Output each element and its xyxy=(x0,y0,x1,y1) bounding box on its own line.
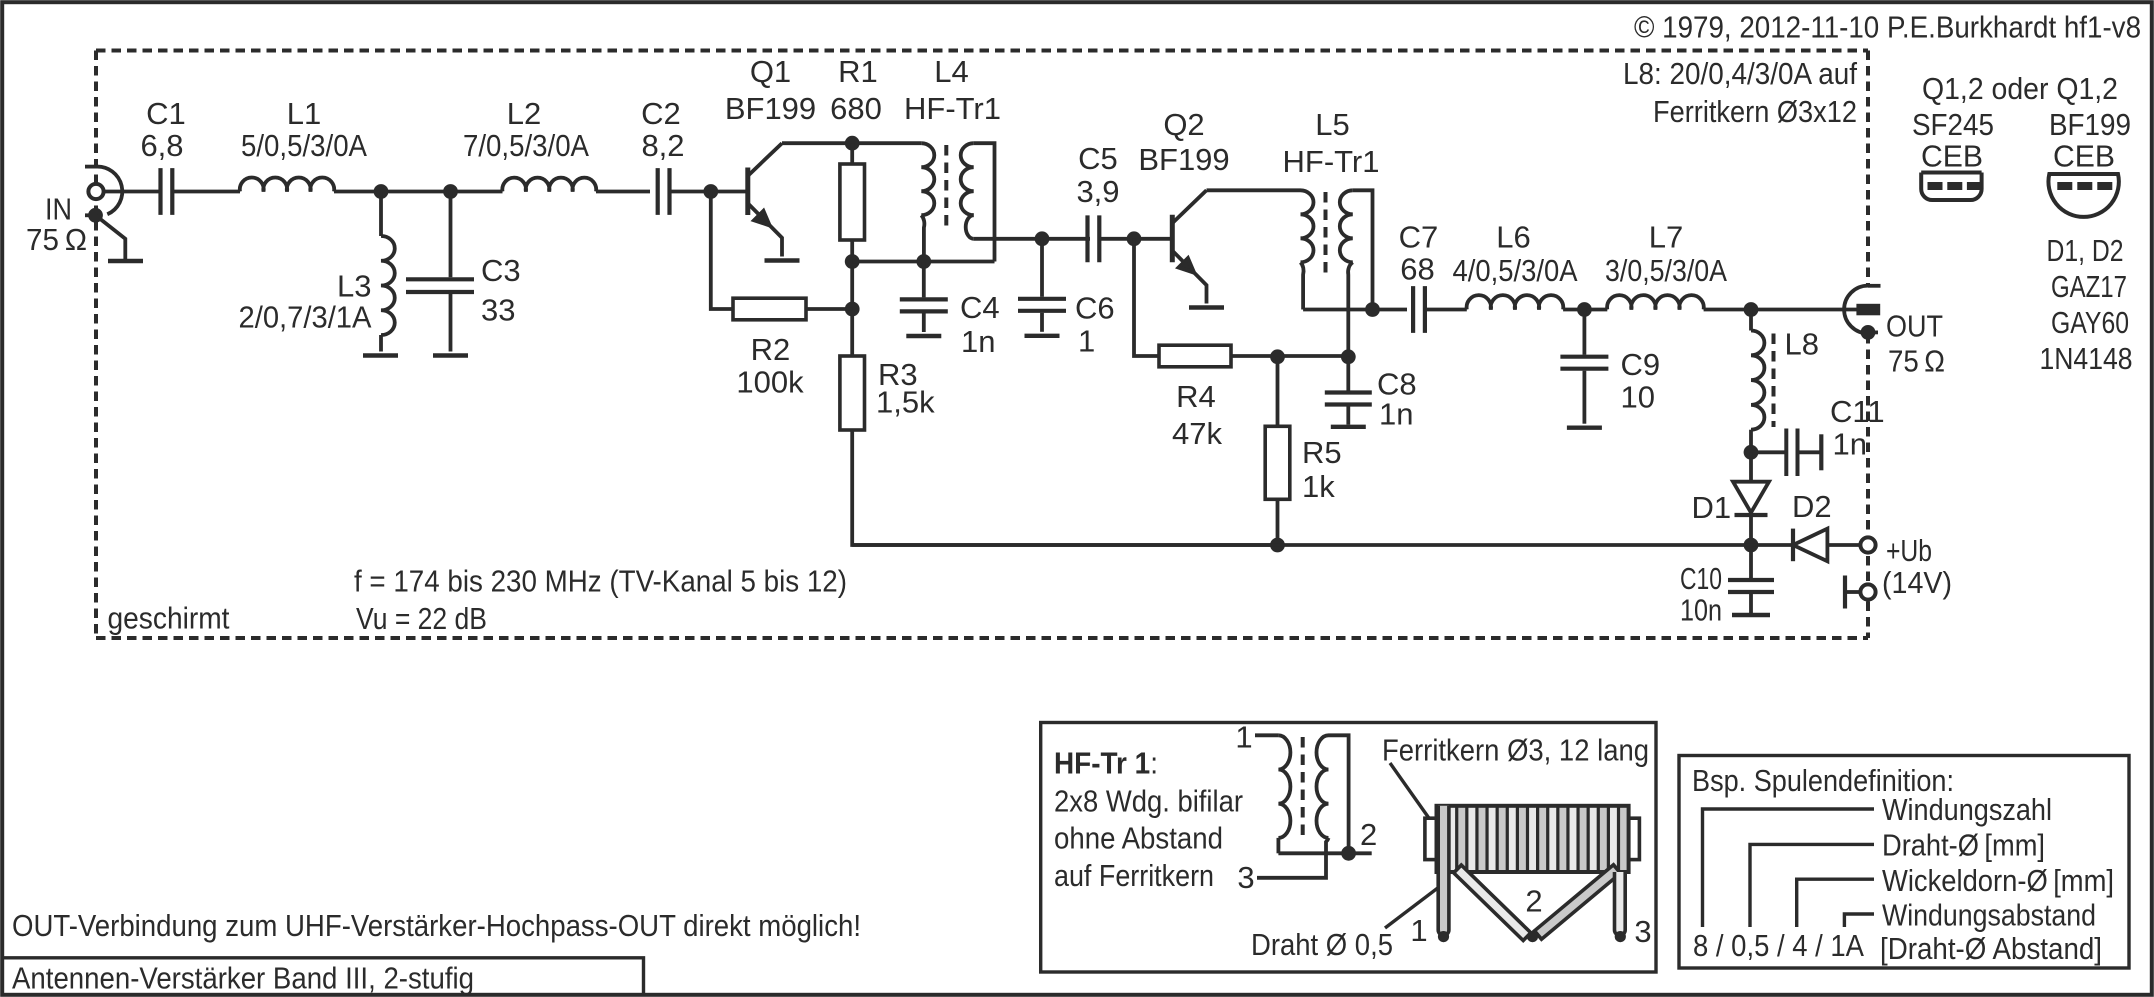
chassis bar (C11 to shield) xyxy=(1819,434,1823,470)
ground (C6) xyxy=(1025,334,1060,338)
resistor R3 xyxy=(840,356,865,430)
node: OUT shield dot xyxy=(1861,325,1876,340)
OUT connector (coax socket on shield wall) xyxy=(1844,286,1868,334)
svg-text:+Ub: +Ub xyxy=(1886,533,1932,568)
svg-text:75 Ω: 75 Ω xyxy=(26,222,87,257)
ground (C9) xyxy=(1567,426,1602,430)
inductor L6 xyxy=(1467,295,1564,309)
svg-text:1n: 1n xyxy=(1379,397,1413,432)
svg-text:1: 1 xyxy=(1235,720,1252,755)
capacitor C2 xyxy=(658,168,670,215)
svg-text:680: 680 xyxy=(830,91,882,126)
svg-text:Ferritkern Ø3, 12 lang: Ferritkern Ø3, 12 lang xyxy=(1382,733,1649,768)
svg-text:BF199: BF199 xyxy=(2049,107,2131,142)
svg-text:1: 1 xyxy=(1078,324,1095,359)
capacitor C10 xyxy=(1749,545,1753,578)
HF-Tr1 symbol: primary winding xyxy=(1278,735,1290,838)
transistor Q1 xyxy=(745,168,750,216)
svg-text:OUT-Verbindung zum UHF-Verstär: OUT-Verbindung zum UHF-Verstärker-Hochpa… xyxy=(12,908,861,943)
svg-text:OUT: OUT xyxy=(1886,309,1943,344)
svg-text:[Draht-Ø Abstand]: [Draht-Ø Abstand] xyxy=(1880,931,2102,966)
svg-text:2x8 Wdg. bifilar: 2x8 Wdg. bifilar xyxy=(1054,784,1243,819)
bracket: Windungszahl xyxy=(1703,809,1875,927)
svg-text:C5: C5 xyxy=(1078,141,1118,176)
svg-text:10n: 10n xyxy=(1680,593,1722,628)
svg-text:D1: D1 xyxy=(1692,490,1732,525)
wire: L4 tap row xyxy=(852,260,994,264)
wire: R2 to R3 node xyxy=(806,307,852,311)
inductor L3 (shunt) xyxy=(379,192,383,237)
wire: Q2 base to R4 xyxy=(1134,239,1159,356)
wire: L4 secondary bottom to Q2 base row xyxy=(974,237,1090,241)
svg-text:© 1979, 2012-11-10 P.E.Burkhar: © 1979, 2012-11-10 P.E.Burkhardt hf1-v8 xyxy=(1634,10,2141,45)
ground (C3) xyxy=(433,353,468,357)
svg-text:Q2: Q2 xyxy=(1163,107,1204,142)
svg-text:(14V): (14V) xyxy=(1882,565,1952,600)
svg-text:6,8: 6,8 xyxy=(140,128,183,163)
svg-text:3: 3 xyxy=(1237,860,1254,895)
wire: L5 tap row to C7 xyxy=(1303,308,1407,312)
coil drawing: pin 1 lead xyxy=(1438,806,1449,936)
node: L3 junction xyxy=(374,184,389,199)
svg-text:HF-Tr1: HF-Tr1 xyxy=(1283,144,1380,179)
node: R1 top junction xyxy=(845,136,860,151)
wire: C2 to Q1 base xyxy=(670,190,746,194)
resistor R4 xyxy=(1159,345,1231,367)
svg-text:C9: C9 xyxy=(1621,347,1661,382)
svg-text:C10: C10 xyxy=(1680,561,1722,596)
Spulendefinition box xyxy=(1679,756,2129,969)
svg-text:Antennen-Verstärker Band III,: Antennen-Verstärker Band III, 2-stufig xyxy=(12,961,474,996)
capacitor C4 xyxy=(922,262,926,298)
shield box (geschirmt), dashed border xyxy=(96,49,1868,53)
capacitor C8 xyxy=(1346,357,1350,391)
title box xyxy=(4,958,644,995)
node: D1/C10 junction on supply rail xyxy=(1744,538,1759,553)
svg-text:1: 1 xyxy=(1410,913,1427,948)
svg-text:R2: R2 xyxy=(751,332,791,367)
wire: C5 to Q2 base xyxy=(1100,237,1170,241)
svg-text:47k: 47k xyxy=(1172,416,1222,451)
svg-text:Ferritkern Ø3x12: Ferritkern Ø3x12 xyxy=(1653,94,1857,129)
HF-Tr1 symbol: secondary winding xyxy=(1317,735,1329,838)
ground (C8) xyxy=(1331,425,1366,429)
HF-Tr1 symbol: secondary top to pin2 riser xyxy=(1329,735,1349,853)
svg-text:HF-Tr 1:: HF-Tr 1: xyxy=(1054,746,1158,781)
svg-text:C3: C3 xyxy=(481,253,521,288)
svg-text:geschirmt: geschirmt xyxy=(108,601,230,636)
node: C8 junction xyxy=(1341,349,1356,364)
svg-text:33: 33 xyxy=(481,293,515,328)
svg-text:D2: D2 xyxy=(1792,489,1832,524)
resistor R2 xyxy=(733,298,806,320)
wire: Q2 collector to L5 xyxy=(1207,188,1301,192)
svg-text:Windungszahl: Windungszahl xyxy=(1882,792,2052,827)
capacitor C3 (shunt) xyxy=(449,192,453,278)
svg-text:HF-Tr1: HF-Tr1 xyxy=(904,91,1001,126)
wire: C7 to L6 xyxy=(1425,308,1466,312)
svg-text:C6: C6 xyxy=(1075,291,1115,326)
wire: IN to C1 xyxy=(104,190,161,194)
capacitor C5 xyxy=(1088,215,1100,262)
transformer L4 (HF-Tr1) primary winding xyxy=(921,143,934,215)
svg-text:Draht Ø 0,5: Draht Ø 0,5 xyxy=(1251,927,1393,962)
wire: C1 to L1 xyxy=(173,190,240,194)
ground (IN shield) xyxy=(108,259,143,263)
svg-text:D1, D2: D1, D2 xyxy=(2047,233,2124,268)
svg-text:2/0,7/3/1A: 2/0,7/3/1A xyxy=(239,300,372,335)
svg-text:GAY60: GAY60 xyxy=(2051,305,2129,340)
svg-text:L1: L1 xyxy=(287,96,321,131)
svg-text:C1: C1 xyxy=(146,96,186,131)
node: Q1 base junction xyxy=(703,184,718,199)
chassis bar (supply return to shield) xyxy=(1843,576,1847,609)
inductor L7 xyxy=(1607,295,1704,309)
svg-text:L4: L4 xyxy=(934,54,968,89)
transformer L4 secondary winding xyxy=(961,143,974,215)
svg-text:f = 174 bis 230 MHz (TV-Kanal: f = 174 bis 230 MHz (TV-Kanal 5 bis 12) xyxy=(354,564,847,599)
capacitor C1 xyxy=(161,168,173,215)
resistor R1 xyxy=(850,143,854,164)
Draht callout line xyxy=(1385,884,1443,928)
coil drawing: left end cap xyxy=(1425,818,1437,859)
svg-text:C4: C4 xyxy=(960,290,1000,325)
svg-text:1k: 1k xyxy=(1302,469,1335,504)
node: C6 junction xyxy=(1035,231,1050,246)
node: L4 primary bottom junction (C4) xyxy=(916,254,931,269)
wire: L5 secondary top to output tap xyxy=(1353,190,1373,309)
svg-text:100k: 100k xyxy=(736,365,804,400)
L4 core (dashed) xyxy=(944,145,948,228)
IN connector (coax socket on shield wall) xyxy=(85,165,97,169)
svg-text:Draht-Ø [mm]: Draht-Ø [mm] xyxy=(1882,828,2045,863)
coil drawing: right end cap xyxy=(1629,818,1640,859)
svg-text:4/0,5/3/0A: 4/0,5/3/0A xyxy=(1453,253,1578,288)
coil drawing: pin 3 lead xyxy=(1615,872,1626,935)
HF-Tr1 symbol: primary bottom to pin 2 xyxy=(1278,851,1371,855)
bracket: Wickeldorn-diameter xyxy=(1797,879,1874,927)
capacitor C7 xyxy=(1413,286,1425,333)
svg-text:C7: C7 xyxy=(1399,220,1439,255)
svg-text:L8: L8 xyxy=(1785,327,1819,362)
svg-text:R5: R5 xyxy=(1302,435,1342,470)
wire: Q1 base feedback to R2 xyxy=(711,192,733,310)
node: L8 junction xyxy=(1744,302,1759,317)
svg-text:L6: L6 xyxy=(1496,220,1530,255)
coil drawing: body with windings (striped) xyxy=(1437,806,1629,872)
svg-text:BF199: BF199 xyxy=(725,91,816,126)
bracket: Windungsabstand xyxy=(1844,914,1874,927)
ground (C4) xyxy=(906,334,941,338)
node: C9 junction xyxy=(1577,302,1592,317)
node: R5 top junction xyxy=(1270,349,1285,364)
svg-text:L7: L7 xyxy=(1649,220,1683,255)
capacitor C11 xyxy=(1751,450,1785,454)
svg-text:1N4148: 1N4148 xyxy=(2040,341,2133,376)
svg-text:1,5k: 1,5k xyxy=(876,385,935,420)
ground (C10) xyxy=(1732,613,1770,617)
svg-text:3/0,5/3/0A: 3/0,5/3/0A xyxy=(1605,253,1727,288)
svg-text:8,2: 8,2 xyxy=(641,128,684,163)
svg-text:Q1,2 oder Q1,2: Q1,2 oder Q1,2 xyxy=(1922,71,2118,106)
node: L5 tap junction xyxy=(1365,302,1380,317)
svg-text:3: 3 xyxy=(1634,914,1651,949)
capacitor C9 xyxy=(1583,310,1587,355)
BF199 package outline xyxy=(2048,174,2118,217)
svg-text:1n: 1n xyxy=(1833,427,1867,462)
svg-text:auf Ferritkern: auf Ferritkern xyxy=(1054,858,1214,893)
capacitor C6 xyxy=(1040,239,1044,297)
ground (Q1 emitter) xyxy=(765,258,800,262)
coil drawing: pin 2 V lead (left half) xyxy=(1454,865,1531,940)
Ferritkern callout line xyxy=(1390,763,1431,821)
HF-Tr1 symbol: pin1 wire xyxy=(1255,733,1278,737)
node: HF-Tr1 pin2 junction xyxy=(1341,846,1356,861)
node: L4 tap junction at R1 bottom xyxy=(845,254,860,269)
svg-text:L5: L5 xyxy=(1315,107,1349,142)
wire: R4 to R5/C8 nodes xyxy=(1231,354,1348,358)
wire: supply rail (bottom) xyxy=(852,543,1751,547)
supply return terminal xyxy=(1860,584,1875,599)
svg-text:8 / 0,5 / 4 / 1A: 8 / 0,5 / 4 / 1A xyxy=(1693,928,1864,963)
+Ub supply terminal xyxy=(1860,537,1875,552)
ground (L3) xyxy=(363,353,398,357)
HF-Tr1 symbol: core dashed xyxy=(1301,737,1305,836)
svg-text:2: 2 xyxy=(1360,817,1377,852)
node: L8 bottom junction xyxy=(1744,445,1759,460)
svg-text:R1: R1 xyxy=(838,54,878,89)
diode D2 xyxy=(1751,543,1791,547)
svg-text:GAZ17: GAZ17 xyxy=(2051,269,2127,304)
transformer L5 secondary winding xyxy=(1340,190,1353,262)
resistor R5 xyxy=(1276,357,1280,427)
L5 core (dashed) xyxy=(1324,192,1328,275)
svg-text:75 Ω: 75 Ω xyxy=(1888,344,1945,379)
L8 core (dashed) xyxy=(1772,334,1776,428)
HF-Tr1 info box xyxy=(1041,723,1656,973)
svg-text:10: 10 xyxy=(1621,380,1655,415)
svg-text:3,9: 3,9 xyxy=(1076,174,1119,209)
svg-text:L2: L2 xyxy=(507,96,541,131)
svg-text:BF199: BF199 xyxy=(1138,142,1229,177)
node: IN shield terminal dot xyxy=(85,213,92,217)
wire: L4 secondary top to tap via right side xyxy=(974,143,995,261)
transformer L5 (HF-Tr1) primary winding xyxy=(1301,190,1314,262)
wire: L7 to OUT xyxy=(1704,308,1857,312)
wire: L6 to L7 xyxy=(1563,308,1607,312)
wire: IN shield to ground xyxy=(96,215,126,259)
node: R2/R3 junction xyxy=(845,302,860,317)
svg-text:Vu = 22 dB: Vu = 22 dB xyxy=(356,601,487,636)
svg-text:68: 68 xyxy=(1400,252,1434,287)
svg-text:Q1: Q1 xyxy=(750,54,791,89)
svg-text:SF245: SF245 xyxy=(1912,107,1994,142)
svg-text:L8: 20/0,4/3/0A auf: L8: 20/0,4/3/0A auf xyxy=(1623,56,1857,91)
svg-text:R4: R4 xyxy=(1176,379,1216,414)
node: C3 junction xyxy=(443,184,458,199)
transistor Q2 xyxy=(1170,215,1175,262)
inductor L2 xyxy=(502,178,596,192)
svg-text:C2: C2 xyxy=(641,96,681,131)
HF-Tr1 symbol: secondary bottom to pin 3 xyxy=(1257,838,1329,878)
svg-text:7/0,5/3/0A: 7/0,5/3/0A xyxy=(463,128,589,163)
bracket: Draht-diameter xyxy=(1750,844,1874,927)
SF245 package outline xyxy=(1921,173,1981,201)
svg-text:1n: 1n xyxy=(961,324,995,359)
svg-text:ohne Abstand: ohne Abstand xyxy=(1054,821,1223,856)
coil drawing: pin 2 V lead (right half) xyxy=(1535,865,1621,939)
svg-text:L3: L3 xyxy=(337,269,371,304)
wire: L1 to L2 with junctions xyxy=(334,190,503,194)
svg-text:C11: C11 xyxy=(1830,394,1885,429)
svg-text:5/0,5/3/0A: 5/0,5/3/0A xyxy=(241,128,367,163)
diode D1 xyxy=(1749,452,1753,481)
svg-text:Windungsabstand: Windungsabstand xyxy=(1882,898,2096,933)
wire: Q1 collector to R1 top and L4 xyxy=(782,141,921,145)
svg-text:2: 2 xyxy=(1525,884,1542,919)
svg-text:CEB: CEB xyxy=(2053,139,2115,174)
wire: L2 to C2 xyxy=(596,190,650,194)
node: Q2 base junction xyxy=(1127,231,1142,246)
svg-text:CEB: CEB xyxy=(1921,139,1983,174)
node: R5 bottom junction xyxy=(1270,538,1285,553)
ground (Q2 emitter) xyxy=(1189,305,1224,309)
svg-text:Wickeldorn-Ø [mm]: Wickeldorn-Ø [mm] xyxy=(1882,863,2114,898)
inductor L1 xyxy=(240,178,334,192)
inductor L8 (with ferrite core) xyxy=(1749,310,1753,331)
coil drawing: pin dots xyxy=(1438,931,1449,942)
